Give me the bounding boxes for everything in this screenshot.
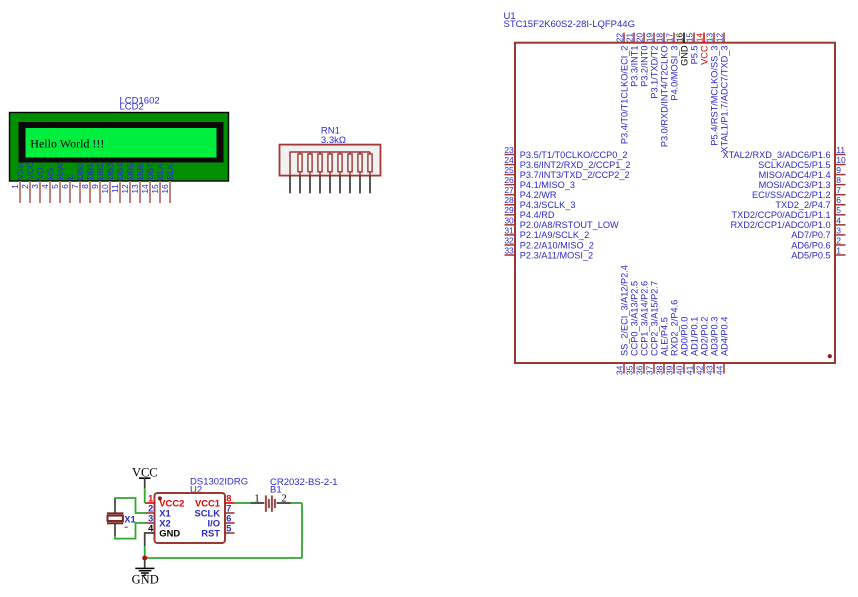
U1 pin 30 stub [505, 224, 516, 226]
U1 pin 20 stub [643, 33, 645, 43]
crystal X1 value dash [125, 527, 128, 528]
LCD2 pin 5 wire [59, 181, 61, 203]
U1 pin 9 stub [835, 174, 846, 176]
svg-text:1: 1 [148, 494, 153, 504]
LCD2 pin 8 wire [89, 181, 91, 203]
U1 pin 37 stub [653, 363, 655, 374]
LCD display LCD2 body [10, 113, 229, 182]
svg-text:TXD2_2/P4.7: TXD2_2/P4.7 [775, 200, 830, 210]
svg-text:LCD2: LCD2 [120, 102, 144, 113]
svg-text:10: 10 [836, 155, 846, 165]
svg-text:VSS: VSS [15, 162, 25, 179]
svg-text:GND: GND [679, 45, 689, 66]
U1 pin 12 stub [723, 33, 725, 43]
ground symbol GND bars [135, 567, 154, 569]
svg-text:DB1: DB1 [85, 163, 95, 180]
U2 pin 3 stub [145, 522, 155, 524]
resistor element R1 of RN1 [299, 152, 301, 154]
svg-text:2: 2 [836, 235, 841, 245]
svg-text:9: 9 [836, 165, 841, 175]
svg-text:P4.3/SCLK_3: P4.3/SCLK_3 [520, 200, 576, 210]
LCD2 pin 13 wire [139, 181, 141, 203]
svg-text:6: 6 [836, 195, 841, 205]
RN1 pin 6 lead [339, 176, 341, 194]
svg-text:CCP2_3/A15/P2.7: CCP2_3/A15/P2.7 [649, 281, 659, 356]
crystal X1 bottom plate [107, 522, 123, 524]
resistor element R3 of RN1 [319, 152, 321, 154]
U1 pin 11 stub [835, 154, 846, 156]
svg-text:X1: X1 [124, 513, 135, 524]
svg-text:VCC: VCC [25, 162, 35, 180]
svg-text:36: 36 [635, 365, 645, 375]
svg-text:17: 17 [664, 33, 674, 43]
U1 pin 44 stub [723, 363, 725, 374]
resistor element R7 of RN1 [359, 152, 361, 154]
U1 pin 18 stub [663, 33, 665, 43]
svg-text:5: 5 [226, 524, 231, 534]
svg-text:XTAL2/RXD_3/ADC6/P1.6: XTAL2/RXD_3/ADC6/P1.6 [723, 150, 831, 160]
svg-text:2: 2 [148, 504, 153, 514]
svg-text:P5.4/RST/MCLKO/SS_3: P5.4/RST/MCLKO/SS_3 [709, 46, 719, 146]
RN1 pin 1 lead [289, 176, 291, 194]
U1 pin 14 stub [703, 33, 705, 43]
resistor network RN1 common pin 1 link [289, 152, 291, 176]
svg-text:7: 7 [226, 504, 231, 514]
svg-text:AD7/P0.7: AD7/P0.7 [791, 230, 830, 240]
svg-text:P2.1/A9/SCLK_2: P2.1/A9/SCLK_2 [520, 230, 589, 240]
LCD2 pin 3 wire [39, 181, 41, 203]
U1 pin 16 stub [683, 33, 685, 43]
LCD display LCD2 screen [26, 128, 217, 158]
svg-text:AD5/P0.5: AD5/P0.5 [791, 250, 830, 260]
LCD2 pin 10 wire [109, 181, 111, 203]
LCD2 pin 7 wire [79, 181, 81, 203]
U1 pin 4 stub [835, 224, 846, 226]
svg-text:26: 26 [504, 175, 514, 185]
LCD2 pin 12 wire [129, 181, 131, 203]
svg-text:2: 2 [20, 184, 30, 189]
svg-text:15: 15 [150, 184, 160, 194]
RN1 pin 3 lead [309, 176, 311, 194]
svg-text:13: 13 [130, 184, 140, 194]
svg-text:DB2: DB2 [95, 163, 105, 180]
RN1 pin 5 lead [329, 176, 331, 194]
svg-text:20: 20 [634, 33, 644, 43]
svg-text:RST: RST [201, 527, 220, 538]
svg-text:24: 24 [504, 155, 514, 165]
wire GND vertical green [144, 546, 146, 558]
U1 pin 10 stub [835, 164, 846, 166]
svg-text:14: 14 [694, 33, 704, 43]
svg-text:R/W: R/W [55, 163, 65, 180]
U1 pin 36 stub [643, 363, 645, 374]
RN1 pin 4 lead [319, 176, 321, 194]
LCD2 pin 2 wire [29, 181, 31, 203]
RTC U2 pin-1 marker dot [158, 496, 162, 500]
U1 pin 41 stub [693, 363, 695, 374]
svg-text:12: 12 [714, 33, 724, 43]
svg-text:DB6: DB6 [135, 163, 145, 180]
svg-text:8: 8 [836, 175, 841, 185]
LCD2 pin 4 wire [49, 181, 51, 203]
U1 pin 28 stub [505, 204, 516, 206]
RTC U2 body [155, 493, 226, 543]
svg-text:DB4: DB4 [115, 163, 125, 180]
svg-text:4: 4 [836, 215, 841, 225]
U1 pin 29 stub [505, 214, 516, 216]
svg-text:P3.4/T0/T1CLKO/ECI_2: P3.4/T0/T1CLKO/ECI_2 [619, 46, 629, 145]
svg-text:P2.3/A11/MOSI_2: P2.3/A11/MOSI_2 [520, 250, 593, 260]
svg-text:P3.6/INT2/RXD_2/CCP1_2: P3.6/INT2/RXD_2/CCP1_2 [520, 160, 631, 170]
svg-text:7: 7 [70, 184, 80, 189]
svg-text:P3.1/TXD/T2: P3.1/TXD/T2 [649, 46, 659, 99]
svg-text:SCLK/ADC5/P1.5: SCLK/ADC5/P1.5 [758, 160, 831, 170]
svg-text:B1: B1 [270, 485, 282, 496]
svg-text:RS: RS [45, 167, 55, 179]
svg-text:3: 3 [836, 225, 841, 235]
svg-text:5: 5 [50, 184, 60, 189]
svg-text:4: 4 [40, 184, 50, 189]
crystal X1 body [108, 516, 123, 521]
svg-text:6: 6 [226, 514, 231, 524]
svg-text:40: 40 [675, 365, 685, 375]
svg-text:31: 31 [504, 225, 514, 235]
svg-text:15: 15 [684, 33, 694, 43]
RN1 pin 2 lead [299, 176, 301, 194]
LCD display LCD2 bezel [19, 122, 224, 163]
svg-text:3: 3 [148, 514, 153, 524]
svg-text:16: 16 [160, 184, 170, 194]
svg-text:29: 29 [504, 205, 514, 215]
svg-text:P3.3/INT1: P3.3/INT1 [629, 46, 639, 87]
svg-text:41: 41 [685, 365, 695, 375]
svg-text:30: 30 [504, 215, 514, 225]
U1 pin 42 stub [703, 363, 705, 374]
svg-text:VO: VO [35, 167, 45, 180]
svg-text:RXD2/CCP1/ADC0/P1.0: RXD2/CCP1/ADC0/P1.0 [731, 220, 831, 230]
wire VCC to U2 pin 1 [144, 488, 146, 503]
svg-text:38: 38 [655, 365, 665, 375]
U1 pin 34 stub [623, 363, 625, 374]
U1 pin 22 stub [623, 33, 625, 43]
U1 pin 24 stub [505, 164, 516, 166]
crystal X1 bottom pin lead [114, 523, 116, 536]
svg-text:22: 22 [614, 33, 624, 43]
svg-text:XTAL1/P1.7/ADC7/TXD_3: XTAL1/P1.7/ADC7/TXD_3 [719, 46, 729, 153]
svg-text:39: 39 [665, 365, 675, 375]
svg-text:6: 6 [60, 184, 70, 189]
LCD2 pin 15 wire [159, 181, 161, 203]
U1 pin 39 stub [673, 363, 675, 374]
microcontroller U1 body [515, 43, 835, 363]
svg-text:11: 11 [110, 184, 120, 193]
U1 pin 32 stub [505, 244, 516, 246]
svg-text:Hello World !!!: Hello World !!! [30, 137, 104, 151]
U1 pin 23 stub [505, 154, 516, 156]
U1 pin 33 stub [505, 254, 516, 256]
resistor element R8 of RN1 [369, 152, 371, 154]
LCD2 pin 9 wire [99, 181, 101, 203]
U1 pin 15 stub [693, 33, 695, 43]
svg-text:BLA: BLA [155, 163, 165, 179]
resistor network RN1 common bus wire [290, 151, 371, 153]
power symbol VCC stem [144, 478, 146, 488]
svg-text:14: 14 [140, 184, 150, 194]
U1 pin 6 stub [835, 204, 846, 206]
svg-text:VCC: VCC [132, 465, 158, 479]
U2 pin 7 stub [225, 512, 235, 514]
ground symbol GND stem [144, 558, 146, 568]
svg-text:P2.0/A8/RSTOUT_LOW: P2.0/A8/RSTOUT_LOW [520, 220, 619, 230]
wire GND bottom rail [145, 557, 302, 559]
U2 pin 1 stub [145, 502, 155, 504]
svg-text:1: 1 [836, 245, 841, 255]
svg-text:42: 42 [695, 365, 705, 375]
svg-text:8: 8 [226, 494, 231, 504]
battery B1 pin 1 lead [251, 502, 265, 504]
svg-text:MISO/ADC4/P1.4: MISO/ADC4/P1.4 [759, 170, 831, 180]
wire battery B1 pin 2 right [291, 502, 303, 504]
svg-text:13: 13 [704, 33, 714, 43]
svg-text:DB0: DB0 [75, 163, 85, 180]
svg-text:33: 33 [504, 245, 514, 255]
U1 pin 31 stub [505, 234, 516, 236]
svg-text:MOSI/ADC3/P1.3: MOSI/ADC3/P1.3 [759, 180, 831, 190]
svg-text:E: E [65, 174, 75, 180]
U1 pin 8 stub [835, 184, 846, 186]
svg-text:P4.1/MISO_3: P4.1/MISO_3 [520, 180, 575, 190]
svg-text:P3.2/INT0: P3.2/INT0 [639, 46, 649, 87]
svg-text:28: 28 [504, 195, 514, 205]
battery B1 pin 2 lead [277, 502, 291, 504]
U1 pin 35 stub [633, 363, 635, 374]
svg-text:STC15F2K60S2-28I-LQFP44G: STC15F2K60S2-28I-LQFP44G [504, 19, 635, 30]
U1 pin 3 stub [835, 234, 846, 236]
U2 pin 6 stub [225, 522, 235, 524]
U1 pin 40 stub [683, 363, 685, 374]
resistor element R6 of RN1 [349, 152, 351, 154]
svg-text:GND: GND [159, 527, 180, 538]
svg-text:8: 8 [80, 184, 90, 189]
LCD2 pin 1 wire [19, 181, 21, 203]
svg-text:AD3/P0.3: AD3/P0.3 [709, 317, 719, 356]
RN1 pin 8 lead [359, 176, 361, 194]
RN1 pin 9 lead [369, 176, 371, 194]
U1 pin 7 stub [835, 194, 846, 196]
wire battery B1 pin 2 drop [301, 503, 303, 558]
svg-text:34: 34 [615, 365, 625, 375]
U1 pin 26 stub [505, 184, 516, 186]
svg-text:44: 44 [715, 365, 725, 375]
svg-text:AD1/P0.1: AD1/P0.1 [689, 317, 699, 356]
microcontroller U1 pin-1 marker dot [828, 354, 832, 358]
svg-text:AD6/P0.6: AD6/P0.6 [791, 240, 830, 250]
svg-text:TXD2/CCP0/ADC1/P1.1: TXD2/CCP0/ADC1/P1.1 [732, 210, 831, 220]
svg-text:1: 1 [10, 184, 20, 189]
U1 pin 38 stub [663, 363, 665, 374]
wire crystal X1 top to U2 pin 2 [114, 498, 145, 513]
svg-text:P3.0/RXD/INT4/T2CLKO: P3.0/RXD/INT4/T2CLKO [659, 46, 669, 148]
svg-text:43: 43 [705, 365, 715, 375]
resistor element R5 of RN1 [339, 152, 341, 154]
U2 pin 8 stub [225, 502, 235, 504]
U1 pin 17 stub [673, 33, 675, 43]
svg-text:CCP1_3/A14/P2.6: CCP1_3/A14/P2.6 [639, 281, 649, 356]
svg-text:AD2/P0.2: AD2/P0.2 [699, 317, 709, 356]
svg-text:BLK: BLK [165, 163, 175, 179]
svg-text:RXD2_2/P4.6: RXD2_2/P4.6 [669, 300, 679, 356]
svg-text:23: 23 [504, 145, 514, 155]
junction GND node [142, 556, 147, 561]
svg-text:P4.0/MOSI_3: P4.0/MOSI_3 [669, 46, 679, 101]
svg-text:P2.2/A10/MISO_2: P2.2/A10/MISO_2 [520, 240, 594, 250]
svg-text:21: 21 [624, 33, 634, 43]
svg-text:P4.4/RD: P4.4/RD [520, 210, 555, 220]
svg-text:2: 2 [281, 492, 287, 504]
wire U2 pin 4 GND down (black) [145, 533, 155, 546]
crystal X1 top plate [107, 512, 123, 514]
svg-text:32: 32 [504, 235, 514, 245]
svg-text:4: 4 [148, 524, 154, 534]
U1 pin 5 stub [835, 214, 846, 216]
resistor element R2 of RN1 [309, 152, 311, 154]
U1 pin 13 stub [713, 33, 715, 43]
svg-text:SS_2/ECI_3/A12/P2.4: SS_2/ECI_3/A12/P2.4 [619, 265, 629, 356]
LCD2 pin 6 wire [69, 181, 71, 203]
LCD2 pin 14 wire [149, 181, 151, 203]
U2 pin 2 stub [145, 512, 155, 514]
U1 pin 43 stub [713, 363, 715, 374]
svg-text:7: 7 [836, 185, 841, 195]
U1 pin 21 stub [633, 33, 635, 43]
svg-text:AD0/P0.0: AD0/P0.0 [679, 317, 689, 356]
wire crystal X1 bottom to U2 pin 3 [115, 523, 146, 539]
svg-text:5: 5 [836, 205, 841, 215]
svg-text:1: 1 [254, 492, 260, 504]
svg-text:AD4/P0.4: AD4/P0.4 [719, 317, 729, 356]
LCD2 pin 11 wire [119, 181, 121, 203]
svg-text:12: 12 [120, 184, 130, 194]
U1 pin 1 stub [835, 254, 846, 256]
power symbol VCC bar [139, 477, 151, 479]
svg-text:3: 3 [30, 184, 40, 189]
U2 pin 5 stub [225, 532, 235, 534]
svg-text:GND: GND [132, 573, 159, 587]
svg-text:37: 37 [645, 365, 655, 375]
svg-text:9: 9 [90, 184, 100, 189]
svg-text:16: 16 [674, 33, 684, 43]
LCD2 pin 16 wire [169, 181, 171, 203]
svg-text:25: 25 [504, 165, 514, 175]
svg-text:VCC: VCC [699, 45, 709, 65]
U1 pin 27 stub [505, 194, 516, 196]
svg-text:P3.5/T1/T0CLKO/CCP0_2: P3.5/T1/T0CLKO/CCP0_2 [520, 150, 628, 160]
wire U2 pin 8 to battery B1 [235, 502, 251, 504]
U1 pin 19 stub [653, 33, 655, 43]
svg-text:19: 19 [644, 33, 654, 43]
U1 pin 25 stub [505, 174, 516, 176]
svg-text:P3.7/INT3/TXD_2/CCP2_2: P3.7/INT3/TXD_2/CCP2_2 [520, 170, 630, 180]
svg-text:18: 18 [654, 33, 664, 43]
svg-text:DB3: DB3 [105, 163, 115, 180]
svg-text:10: 10 [100, 184, 110, 194]
U1 pin 2 stub [835, 244, 846, 246]
svg-text:P5.5: P5.5 [689, 46, 699, 65]
svg-text:CCP0_3/A13/P2.5: CCP0_3/A13/P2.5 [629, 281, 639, 356]
svg-text:DB7: DB7 [145, 163, 155, 180]
svg-text:11: 11 [836, 145, 845, 155]
svg-text:ECI/SS/ADC2/P1.2: ECI/SS/ADC2/P1.2 [752, 190, 831, 200]
battery B1 plates [265, 495, 267, 511]
svg-text:P4.2/WR: P4.2/WR [520, 190, 557, 200]
resistor element R4 of RN1 [329, 152, 331, 154]
RN1 pin 7 lead [349, 176, 351, 194]
svg-text:27: 27 [504, 185, 514, 195]
svg-text:35: 35 [625, 365, 635, 375]
resistor network RN1 body [280, 145, 381, 176]
crystal X1 top pin lead [114, 499, 116, 514]
svg-text:ALE/P4.5: ALE/P4.5 [659, 317, 669, 356]
svg-text:DB5: DB5 [125, 163, 135, 180]
